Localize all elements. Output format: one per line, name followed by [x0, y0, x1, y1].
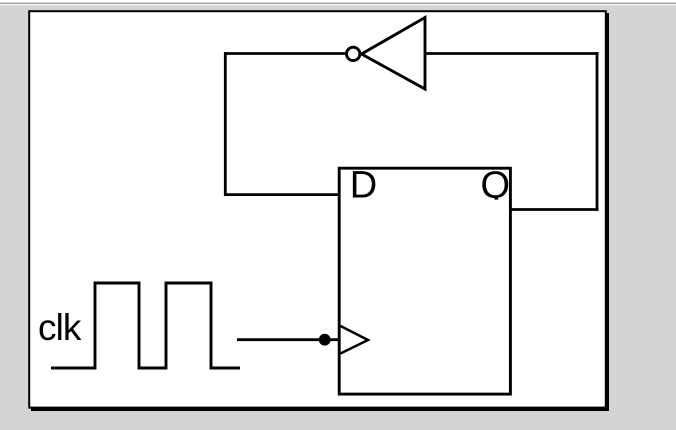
wire: horizontal into D input	[224, 193, 339, 196]
wire: clock source to flip-flop clock input	[237, 338, 339, 341]
wire: Q output to the right	[511, 208, 599, 211]
svg-text:clk: clk	[38, 307, 82, 348]
D flip-flop U2 body	[339, 168, 510, 394]
toolbar edge strip	[0, 0, 676, 5]
inverter U1 triangle	[362, 18, 426, 90]
inverter U1 output bubble	[347, 47, 360, 60]
svg-text:D: D	[350, 164, 377, 206]
clock input triangle of U2	[341, 326, 369, 354]
pin label D	[350, 164, 377, 206]
clk signal label	[38, 307, 82, 348]
wire: right vertical up to inverter input level	[596, 52, 599, 211]
pin label Q	[481, 164, 511, 206]
drawing canvas	[29, 11, 609, 411]
wire: top horizontal into inverter input	[426, 52, 598, 55]
wire: left vertical down to D level	[224, 52, 227, 196]
wire: inverter output to left corner	[224, 52, 347, 55]
clk square waveform	[51, 283, 240, 368]
junction dot on clock wire	[319, 334, 331, 346]
